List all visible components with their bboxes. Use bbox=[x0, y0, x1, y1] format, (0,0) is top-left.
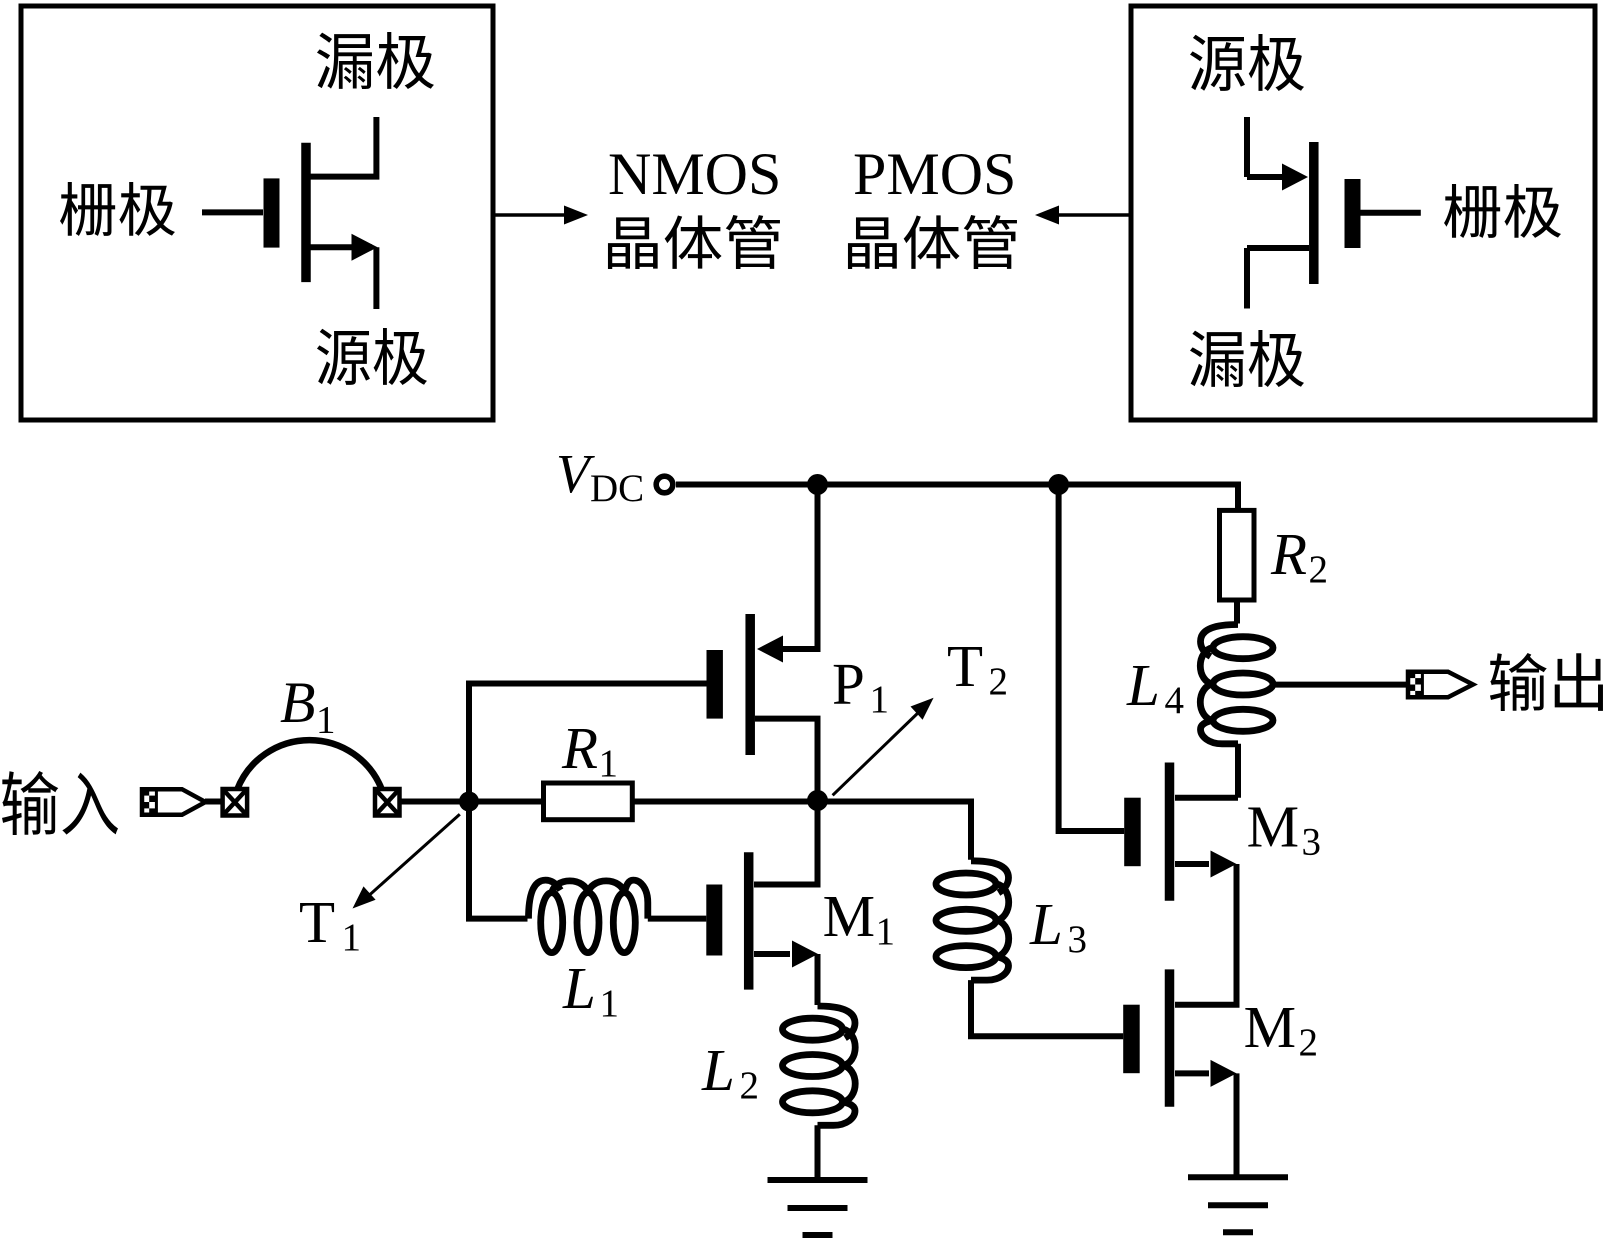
wire L4 tap to output port bbox=[1273, 682, 1408, 688]
label source 源极 (PMOS) bbox=[1190, 34, 1304, 91]
transistor P1 gate bar bbox=[707, 650, 723, 719]
wire M1 source down to L2 bbox=[815, 954, 821, 1005]
inductor L1 bbox=[529, 880, 648, 953]
wire L2 to ground bbox=[815, 1125, 821, 1180]
inductor L2 bbox=[783, 1006, 856, 1125]
svg-text:M: M bbox=[1244, 994, 1296, 1060]
label output 输出 bbox=[1490, 653, 1603, 711]
wire P1 source arm to VDC bbox=[781, 487, 818, 649]
svg-text:M: M bbox=[823, 883, 875, 949]
wire bond pad 2 to node T1 bbox=[399, 799, 469, 805]
ground right bbox=[1188, 1177, 1288, 1232]
transistor P1 source arrow bbox=[757, 636, 783, 663]
svg-text:2: 2 bbox=[1309, 548, 1329, 591]
arrow pointer to node T2 bbox=[833, 710, 921, 795]
label drain 漏极 (PMOS) bbox=[1190, 330, 1304, 387]
svg-text:4: 4 bbox=[1165, 679, 1185, 722]
transistor M2 gate bar bbox=[1123, 1005, 1140, 1073]
wire R1 to node T2 bbox=[632, 799, 817, 805]
svg-text:3: 3 bbox=[1302, 821, 1322, 864]
wire top supply rail bbox=[676, 485, 1238, 511]
label 晶体管 (PMOS) bbox=[848, 215, 1017, 269]
inductor L3 bbox=[936, 861, 1009, 980]
svg-text:1: 1 bbox=[876, 910, 896, 953]
demo PMOS transistor symbol bbox=[1247, 117, 1421, 309]
wire M1 source arm bbox=[754, 951, 790, 957]
label 晶体管 (NMOS) bbox=[608, 215, 780, 269]
svg-text:1: 1 bbox=[599, 742, 619, 785]
bond pad 2 bbox=[375, 789, 400, 816]
wire node T2 to L3 branch bbox=[818, 802, 972, 860]
junction top rail / P1 source bbox=[807, 474, 828, 495]
bond wire B1 arc bbox=[237, 740, 382, 790]
legend box PMOS bbox=[1131, 6, 1595, 420]
wire R2 to L4 bbox=[1234, 600, 1240, 624]
wire L4 to M3 drain bbox=[1235, 744, 1241, 798]
transistor M1 source arrow bbox=[792, 941, 818, 968]
input port connector bbox=[142, 789, 206, 815]
junction node T1 bbox=[459, 792, 479, 812]
label input 输入 bbox=[2, 771, 118, 835]
transistor P1 channel bbox=[745, 614, 755, 755]
svg-text:2: 2 bbox=[989, 660, 1009, 703]
wire M2 source to ground bbox=[1234, 1073, 1240, 1177]
svg-text:PMOS: PMOS bbox=[853, 141, 1016, 207]
wire P1 drain arm down to node T2 bbox=[755, 719, 818, 801]
svg-text:DC: DC bbox=[590, 467, 644, 510]
svg-text:NMOS: NMOS bbox=[608, 141, 781, 207]
bond pad 1 bbox=[223, 789, 248, 816]
wire node T1 to R1 bbox=[469, 799, 544, 805]
label drain 漏极 (NMOS) bbox=[317, 32, 434, 89]
wire M3 gate line bbox=[1059, 485, 1125, 831]
output port connector bbox=[1408, 672, 1473, 698]
svg-text:2: 2 bbox=[740, 1064, 760, 1107]
demo NMOS transistor symbol bbox=[202, 117, 376, 309]
wire node T1 up to P1 gate bbox=[469, 684, 707, 802]
wire node T1 down to L1 bbox=[469, 802, 528, 919]
transistor M3 gate bar bbox=[1124, 798, 1141, 867]
transistor M2 channel bbox=[1165, 969, 1175, 1106]
wire M3 source to M2 drain bbox=[1175, 864, 1237, 1005]
svg-text:T: T bbox=[299, 889, 335, 955]
wire M3 source arm bbox=[1175, 861, 1209, 867]
svg-text:L: L bbox=[701, 1037, 735, 1103]
svg-text:B: B bbox=[280, 670, 315, 735]
svg-text:L: L bbox=[1126, 652, 1160, 718]
svg-text:1: 1 bbox=[342, 916, 362, 959]
transistor M1 gate bar bbox=[706, 885, 722, 956]
label gate 栅极 (PMOS) bbox=[1444, 184, 1561, 238]
svg-text:M: M bbox=[1247, 794, 1299, 860]
transistor M2 source arrow bbox=[1211, 1060, 1237, 1087]
wire L1 to M1 gate bbox=[648, 916, 707, 922]
svg-text:2: 2 bbox=[1299, 1021, 1319, 1064]
terminal circle VDC bbox=[656, 476, 673, 493]
svg-text:T: T bbox=[947, 633, 983, 699]
wire M1 drain arm to node T2 bbox=[754, 803, 818, 885]
wire port to bond pad 1 bbox=[205, 799, 223, 805]
inductor L4 bbox=[1200, 625, 1273, 744]
ground left bbox=[768, 1180, 868, 1235]
resistor R2 bbox=[1220, 510, 1255, 600]
svg-text:L: L bbox=[1029, 891, 1063, 957]
svg-text:L: L bbox=[562, 955, 596, 1021]
svg-text:3: 3 bbox=[1068, 918, 1088, 961]
transistor M3 source arrow bbox=[1211, 851, 1237, 878]
transistor M3 channel bbox=[1165, 763, 1175, 901]
transistor M1 channel bbox=[744, 852, 754, 989]
svg-text:1: 1 bbox=[870, 678, 890, 721]
junction top rail / M3 gate line bbox=[1048, 474, 1069, 495]
arrow to PMOS text bbox=[1057, 213, 1131, 216]
wire L3 to M2 gate bbox=[971, 980, 1123, 1036]
wire M2 source arm bbox=[1175, 1070, 1209, 1076]
junction node T2 bbox=[807, 790, 828, 811]
resistor R1 bbox=[544, 783, 633, 820]
svg-text:P: P bbox=[832, 651, 865, 717]
svg-text:1: 1 bbox=[316, 699, 336, 742]
svg-text:R: R bbox=[1270, 521, 1307, 587]
wire M3 drain arm bbox=[1175, 795, 1238, 801]
arrow to NMOS text bbox=[493, 213, 566, 216]
arrow pointer to node T1 bbox=[365, 814, 460, 899]
label gate 栅极 (NMOS) bbox=[60, 182, 175, 236]
legend box NMOS bbox=[21, 6, 493, 420]
svg-text:R: R bbox=[561, 715, 598, 781]
svg-text:1: 1 bbox=[600, 982, 620, 1025]
label source 源极 (NMOS) bbox=[317, 328, 427, 385]
